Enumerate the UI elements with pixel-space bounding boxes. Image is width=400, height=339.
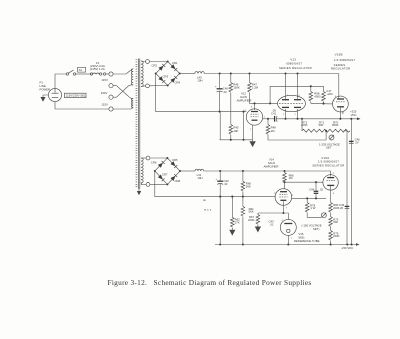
svg-text:220K: 220K <box>248 218 255 222</box>
svg-text:100K: 100K <box>301 123 308 127</box>
V13 label <box>279 58 312 70</box>
+325 output arrow <box>350 110 361 121</box>
wire to terminal 1 <box>106 73 109 75</box>
capacitor C45 <box>339 203 349 210</box>
ground (input) <box>40 95 48 102</box>
voltage adjust row R72 R71 R70 <box>301 119 350 132</box>
terminal circles J1..J4 <box>109 72 113 111</box>
diode CR6 (top-left) <box>158 161 165 168</box>
capacitor C47 <box>322 86 333 103</box>
V16B tube <box>333 96 349 112</box>
svg-text:CR7: CR7 <box>162 173 168 177</box>
secondary winding lower <box>141 158 143 185</box>
svg-text:10K: 10K <box>233 129 238 133</box>
ground below V12 cathode <box>249 140 255 147</box>
svg-text:40: 40 <box>223 90 227 94</box>
wire R68/C47 bottoms to V16B grid <box>311 103 333 105</box>
capacitor C40 <box>215 74 228 112</box>
capacitor C42 <box>216 171 230 197</box>
secondary winding upper <box>141 61 143 87</box>
secondary lower terminals <box>141 156 150 186</box>
svg-text:.05: .05 <box>272 109 276 113</box>
svg-text:CR1: CR1 <box>172 61 178 65</box>
V15 label <box>294 232 320 243</box>
pin numbers <box>245 95 337 240</box>
long vertical interconnect <box>219 112 221 245</box>
svg-text:1 W: 1 W <box>310 206 315 210</box>
switch S1 <box>66 70 76 75</box>
V13 tube envelope <box>278 95 306 111</box>
resistor R60 <box>241 171 251 197</box>
bottom rail F <box>215 243 360 250</box>
svg-text:220K: 220K <box>333 234 340 238</box>
V16A grid line <box>283 181 323 183</box>
svg-text:(115V) 1.2A: (115V) 1.2A <box>90 67 105 71</box>
junction dots on rail A <box>219 72 221 74</box>
resistor R79 <box>329 231 340 245</box>
diode CR2 (top-left) <box>158 64 165 71</box>
svg-text:POWER: POWER <box>40 88 51 92</box>
svg-text:56K: 56K <box>246 184 251 188</box>
choke L41 <box>195 169 204 180</box>
svg-text:S1: S1 <box>79 68 83 72</box>
resistor R66 <box>283 171 294 189</box>
svg-text:+200: +200 <box>326 92 333 96</box>
svg-text:AMPLIFIER: AMPLIFIER <box>237 98 252 102</box>
svg-text:VDC: VDC <box>351 113 357 117</box>
diode CR8 (bottom-right) <box>170 174 177 181</box>
svg-text:.02: .02 <box>319 187 323 191</box>
diode CR4 (bottom-right) <box>170 76 177 83</box>
svg-text:4000: 4000 <box>314 94 321 98</box>
resistor R61 <box>241 197 254 245</box>
bridge 2 diamond <box>154 157 181 185</box>
svg-text:220K: 220K <box>333 206 340 210</box>
primary winding upper <box>131 69 133 85</box>
diode CR3 (bottom-left) <box>158 76 165 83</box>
rail A <box>180 73 195 75</box>
rail B <box>156 74 247 113</box>
V14 plate line <box>292 197 326 199</box>
transformer core laminations <box>136 60 138 187</box>
svg-text:AMPLIFIER: AMPLIFIER <box>264 164 279 168</box>
voltage set label (upper) <box>319 143 340 150</box>
rail D <box>180 170 195 172</box>
svg-text:CR4: CR4 <box>175 81 181 85</box>
svg-text:150K: 150K <box>233 86 240 90</box>
label P1 LINE POWER <box>40 81 51 92</box>
rail C with ground <box>220 139 253 141</box>
svg-text:2V: 2V <box>355 140 359 144</box>
bottom wire from source <box>55 102 109 109</box>
V16B label <box>331 53 355 71</box>
rail E / grid line <box>155 171 275 198</box>
svg-text:1/2 6080/6AS7: 1/2 6080/6AS7 <box>334 58 355 62</box>
svg-text:REFERENCE TUBE: REFERENCE TUBE <box>294 239 320 243</box>
terminal labels <box>101 78 108 106</box>
voltage select label box <box>65 93 87 97</box>
V13 plate wires <box>285 74 287 101</box>
svg-text:Figure 3-12. Schematic Diagr: Figure 3-12. Schematic Diagram of Regula… <box>108 278 312 287</box>
svg-text:CR5: CR5 <box>172 158 178 162</box>
svg-text:50K: 50K <box>319 123 324 127</box>
capacitor C46 <box>349 137 360 144</box>
bridge 1 diamond <box>155 61 181 87</box>
svg-text:SET: SET <box>326 146 332 150</box>
choke L40 <box>195 72 205 83</box>
V16B cathode to output <box>339 108 344 120</box>
svg-text:115V: 115V <box>102 102 108 106</box>
svg-text:40: 40 <box>224 182 228 186</box>
resistor R78 <box>305 198 321 217</box>
V12 label <box>237 92 252 103</box>
resistor R46 <box>229 74 240 125</box>
resistor R62 with ground <box>229 196 240 236</box>
svg-text:CR2: CR2 <box>152 64 158 68</box>
potentiometer wiper (upper) <box>329 135 334 140</box>
svg-text:1M: 1M <box>271 129 276 133</box>
primary winding lower <box>132 99 134 108</box>
V14 error amplifier label <box>264 158 279 169</box>
svg-text:REGULATOR: REGULATOR <box>331 67 350 71</box>
AC source P1 <box>48 88 61 101</box>
wire top from source <box>55 74 66 88</box>
V16A tube <box>323 171 338 196</box>
resistor R45 <box>229 125 239 140</box>
wire to fuse <box>76 73 92 75</box>
svg-text:115V: 115V <box>102 78 108 82</box>
svg-text:SET): SET) <box>313 227 319 231</box>
wires secondary 2 to bridge 2 <box>150 157 167 159</box>
svg-text:CR6: CR6 <box>151 161 157 165</box>
feedback line <box>270 86 323 103</box>
C43 label <box>269 220 275 227</box>
S1 box <box>78 67 86 72</box>
resistor R48 <box>266 119 326 140</box>
right rails down <box>347 118 352 245</box>
cathode line to R67 <box>258 212 284 214</box>
svg-text:1M: 1M <box>289 176 294 180</box>
svg-text:w. c. s: w. c. s <box>204 209 212 212</box>
V13 cathode wires <box>285 109 287 119</box>
grid return wire <box>242 111 244 140</box>
svg-text:56K: 56K <box>249 210 254 214</box>
resistor R80 <box>329 196 340 217</box>
diode CR5 (top-right) <box>170 161 177 168</box>
V14 tube <box>275 189 292 206</box>
faint pencil marks <box>203 198 212 212</box>
V12 tube <box>246 103 262 139</box>
V14 cathode wire <box>282 201 288 219</box>
svg-text:V16B: V16B <box>335 53 343 57</box>
voltage set label (lower) <box>302 223 322 231</box>
svg-text:230V: 230V <box>101 91 108 95</box>
svg-text:C44: C44 <box>309 187 315 191</box>
V15 reference tube <box>280 219 296 244</box>
capacitor C44 <box>309 182 324 198</box>
svg-text:.01: .01 <box>270 223 274 227</box>
V16B plate wire <box>338 74 340 99</box>
svg-text:CR8: CR8 <box>175 179 181 183</box>
svg-text:650K: 650K <box>332 123 339 127</box>
svg-text:20: 20 <box>340 206 344 210</box>
svg-text:27K: 27K <box>235 220 240 224</box>
svg-text:10H: 10H <box>197 176 202 180</box>
fuse F1 <box>90 61 106 75</box>
resistor R47 <box>248 74 259 104</box>
transformer core bars <box>138 59 139 190</box>
grid line to V13 <box>250 102 278 104</box>
svg-text:-150 VDC: -150 VDC <box>341 246 353 250</box>
svg-text:SERIES REGULATOR: SERIES REGULATOR <box>279 66 312 70</box>
resistor R68 <box>309 85 321 103</box>
V16A label <box>312 156 344 168</box>
svg-text:115V/230V SEL: 115V/230V SEL <box>66 94 86 98</box>
secondary upper terminals <box>141 60 149 88</box>
svg-text:1.2M: 1.2M <box>252 86 259 90</box>
svg-text:CR3: CR3 <box>163 75 169 79</box>
core ground <box>137 189 141 195</box>
potentiometer (lower) <box>321 212 326 217</box>
diode CR1 (top-right) <box>170 64 177 71</box>
wires to bridge 1 <box>150 61 168 63</box>
svg-text:10H: 10H <box>197 79 202 83</box>
capacitor C41 and cathode line <box>263 109 357 122</box>
svg-text:SERIES REGULATOR: SERIES REGULATOR <box>312 164 344 168</box>
ground below R67 <box>255 227 261 233</box>
svg-text:50K: 50K <box>333 220 338 224</box>
resistor R67 <box>248 213 260 227</box>
diode CR7 (bottom-left) <box>158 174 165 181</box>
crossing jumper wires to primary <box>113 69 133 109</box>
resistor R73 <box>329 217 339 231</box>
